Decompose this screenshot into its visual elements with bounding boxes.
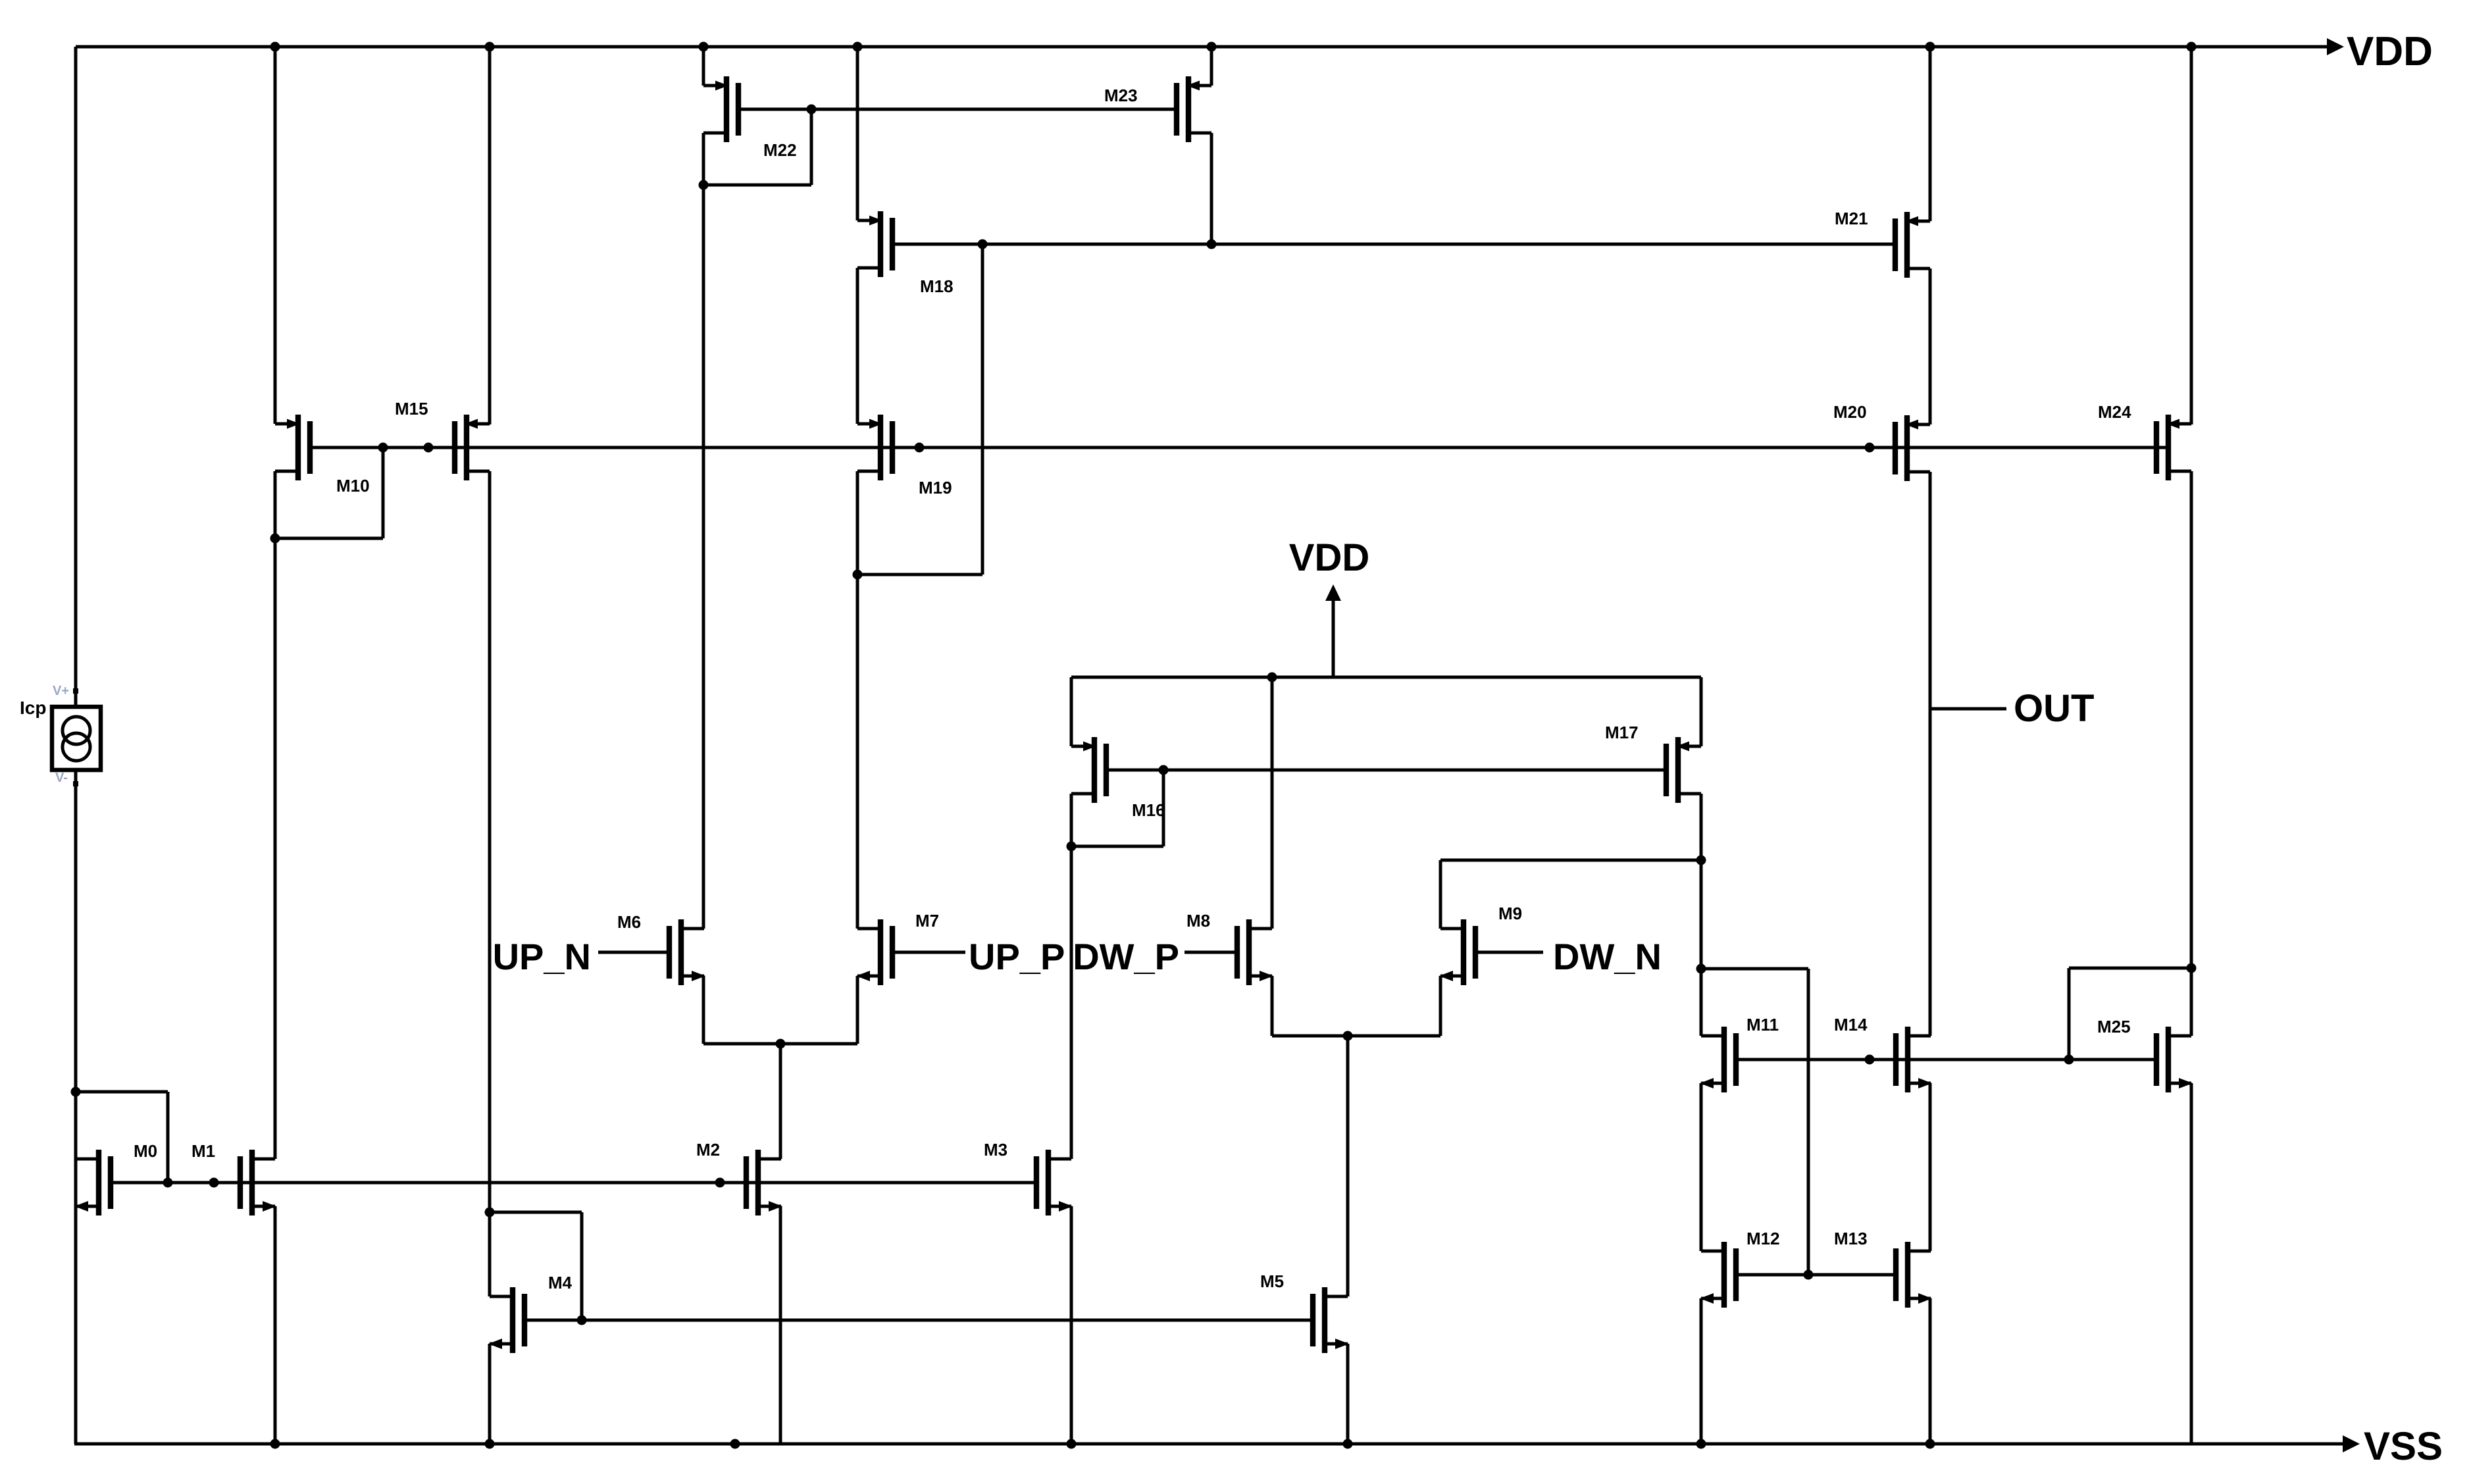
svg-text:VDD: VDD <box>1289 536 1369 579</box>
svg-text:VDD: VDD <box>2347 29 2433 74</box>
svg-text:M17: M17 <box>1605 723 1639 742</box>
svg-text:M5: M5 <box>1260 1271 1284 1291</box>
svg-text:M16: M16 <box>1132 800 1165 820</box>
svg-text:UP_N: UP_N <box>493 936 591 977</box>
svg-text:M21: M21 <box>1835 209 1868 228</box>
svg-text:M22: M22 <box>763 140 797 160</box>
svg-text:DW_P: DW_P <box>1073 936 1179 977</box>
svg-text:M8: M8 <box>1186 911 1210 931</box>
svg-text:M11: M11 <box>1746 1015 1779 1035</box>
svg-text:M7: M7 <box>915 911 939 931</box>
svg-text:M18: M18 <box>920 276 954 296</box>
svg-text:M9: M9 <box>1498 904 1522 923</box>
svg-text:M3: M3 <box>984 1140 1007 1160</box>
svg-text:M10: M10 <box>336 476 370 496</box>
svg-text:M14: M14 <box>1834 1015 1868 1035</box>
svg-text:M15: M15 <box>395 399 428 419</box>
svg-text:UP_P: UP_P <box>969 936 1065 977</box>
svg-text:M0: M0 <box>134 1141 157 1161</box>
svg-text:M2: M2 <box>696 1140 720 1160</box>
svg-text:VSS: VSS <box>2364 1424 2443 1468</box>
svg-text:V-: V- <box>55 771 68 785</box>
svg-text:M6: M6 <box>617 912 641 932</box>
svg-text:DW_N: DW_N <box>1553 936 1662 977</box>
svg-text:M20: M20 <box>1833 402 1867 422</box>
svg-text:M23: M23 <box>1104 86 1138 105</box>
svg-text:M19: M19 <box>919 478 952 498</box>
svg-text:Icp: Icp <box>20 698 46 718</box>
svg-text:V+: V+ <box>53 684 69 698</box>
svg-text:M12: M12 <box>1746 1229 1780 1248</box>
svg-text:M25: M25 <box>2097 1017 2131 1036</box>
svg-text:M1: M1 <box>191 1141 215 1161</box>
svg-text:M24: M24 <box>2098 402 2131 422</box>
svg-text:OUT: OUT <box>2014 687 2094 730</box>
svg-text:M13: M13 <box>1834 1229 1868 1248</box>
svg-text:M4: M4 <box>548 1273 573 1292</box>
